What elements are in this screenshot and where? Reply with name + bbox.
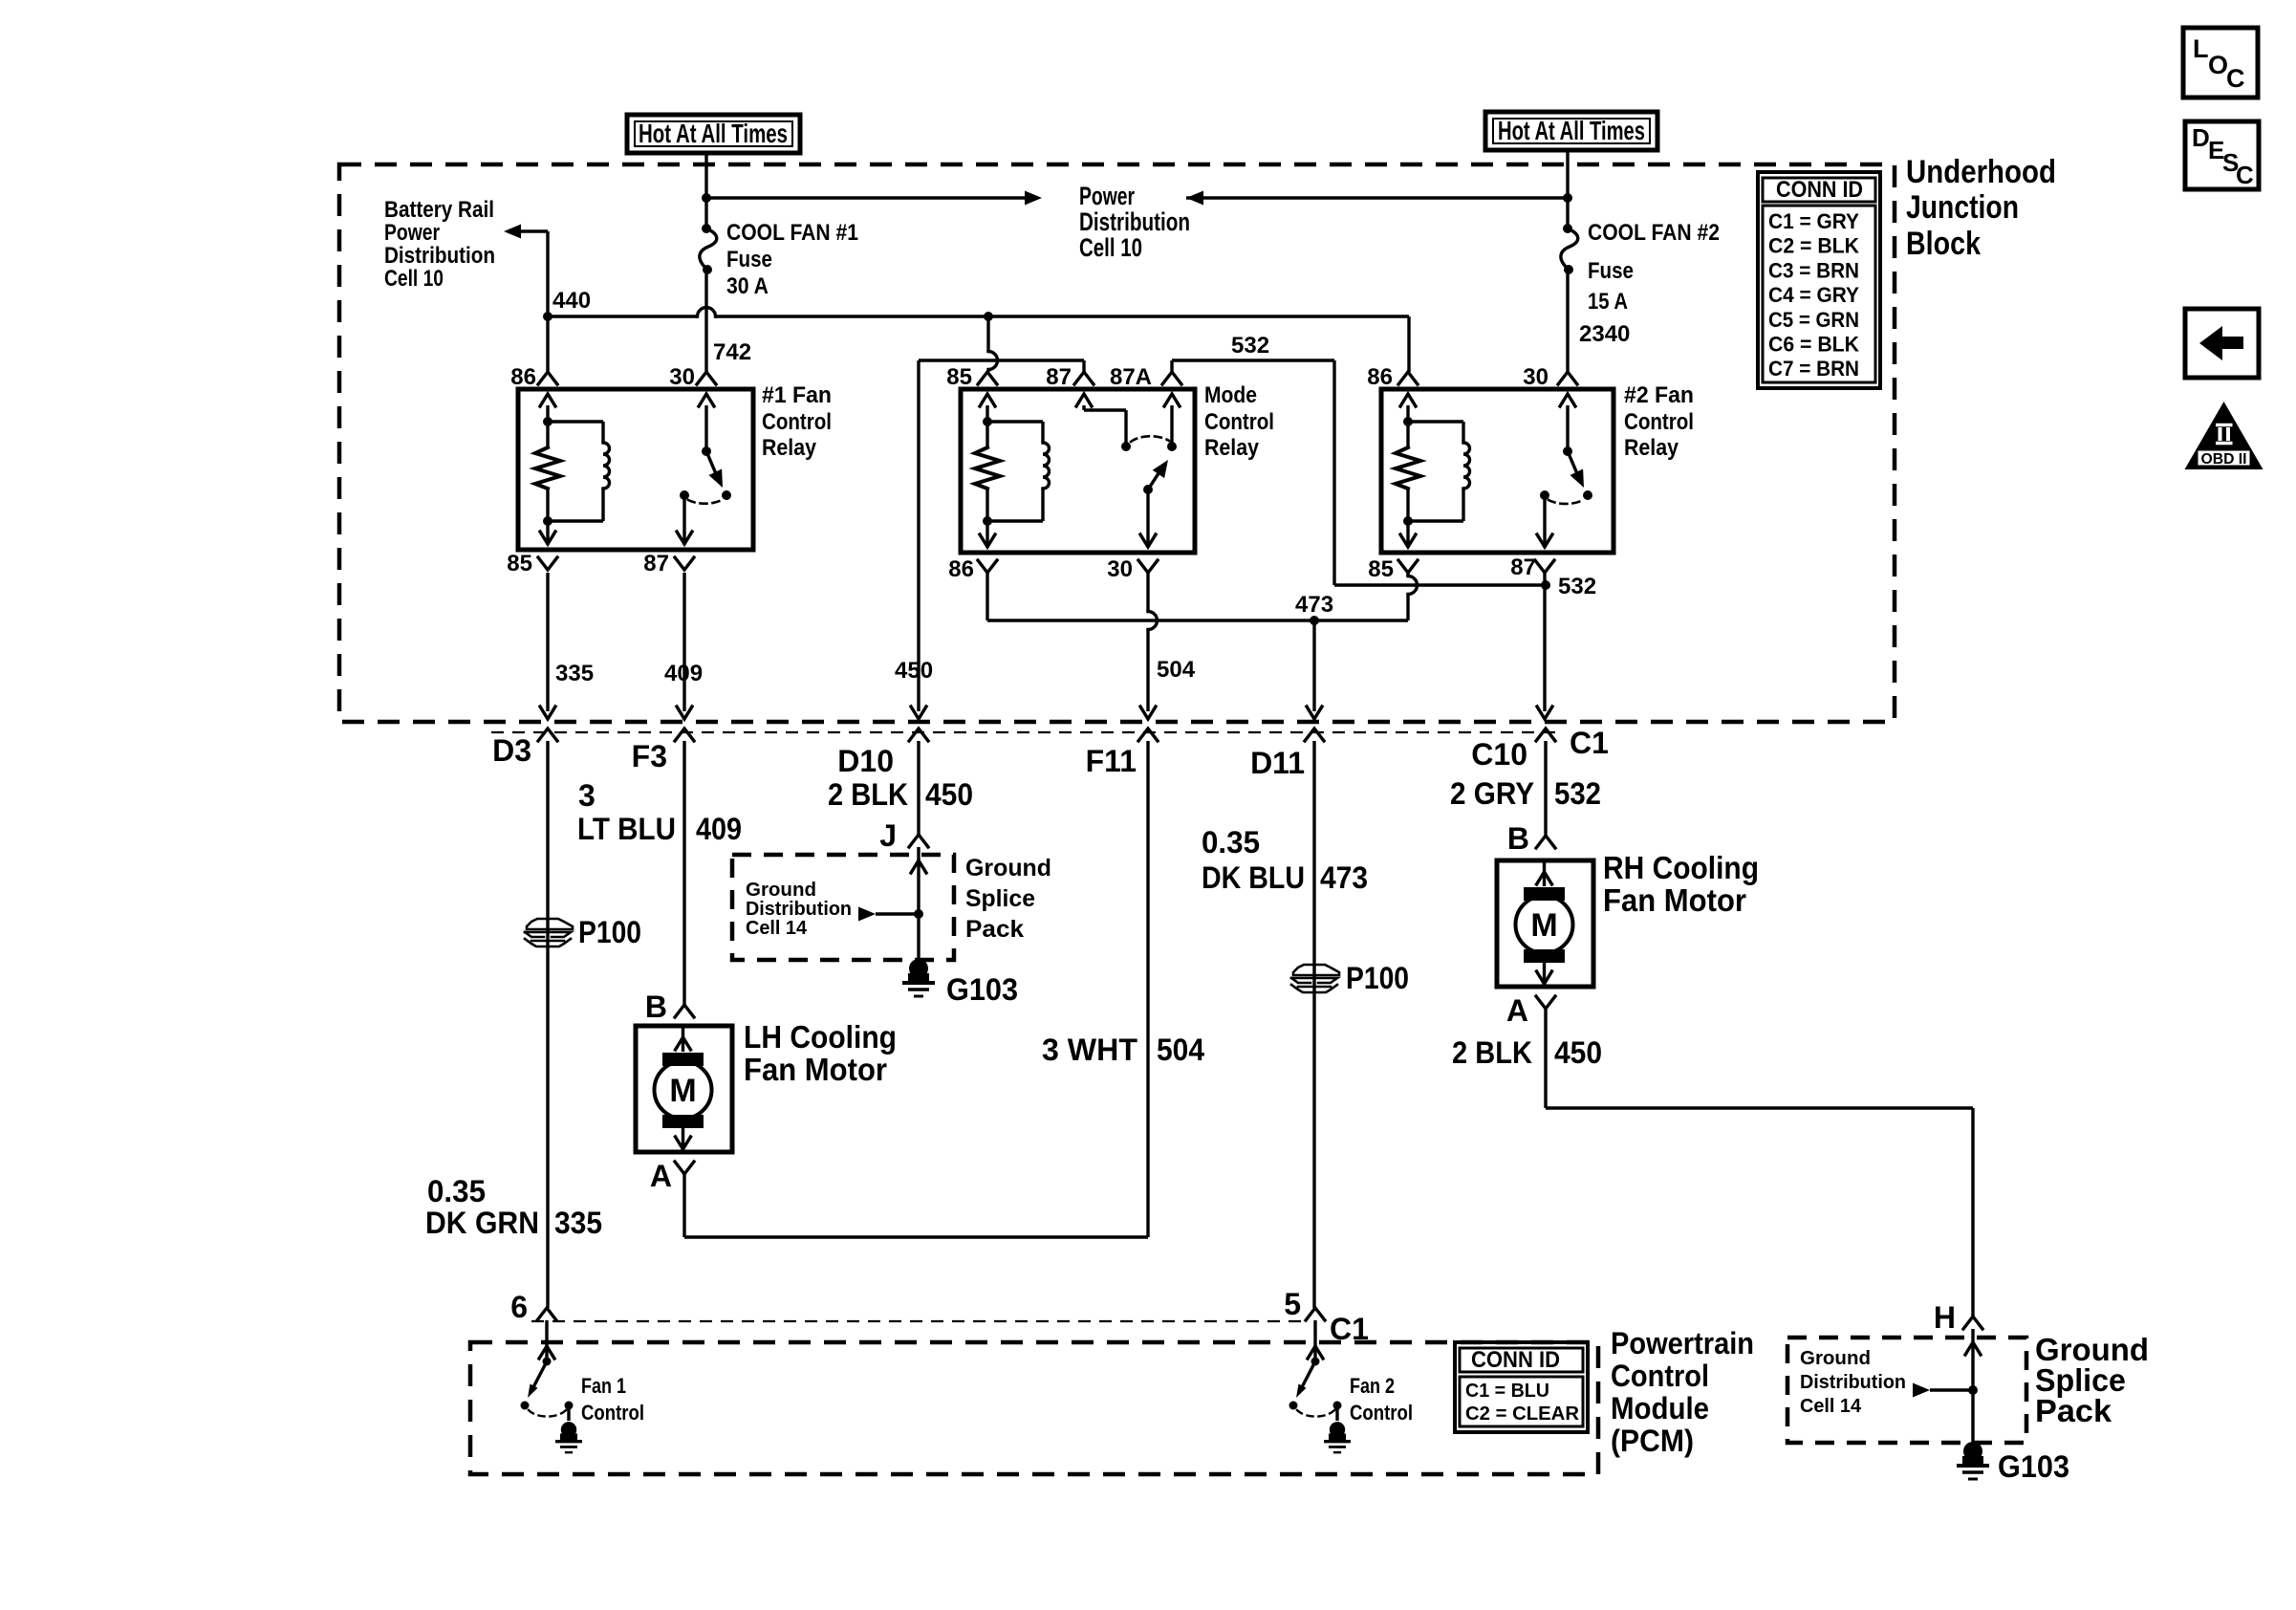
- Ground Splice Pack pin J: [879, 818, 928, 853]
- svg-text:(PCM): (PCM): [1611, 1424, 1694, 1458]
- underhood junction block dashed outline: [339, 164, 1895, 722]
- svg-text:85: 85: [1368, 556, 1394, 582]
- svg-text:C1: C1: [1330, 1312, 1369, 1346]
- svg-text:86: 86: [1367, 364, 1393, 390]
- svg-text:504: 504: [1157, 657, 1196, 683]
- svg-text:532: 532: [1231, 333, 1269, 359]
- label: Ground Splice Pack (center): [965, 855, 1051, 943]
- Ground Splice Pack dashed box (right): [1787, 1338, 2026, 1443]
- node junction on feed 1: [702, 193, 711, 203]
- RH Cooling Fan Motor: [1497, 860, 1593, 987]
- wire 2340 from fuse 2 to relay 2 pin 30: [1566, 270, 1569, 372]
- svg-text:H: H: [1934, 1300, 1956, 1335]
- svg-text:85: 85: [507, 551, 532, 577]
- svg-text:Splice: Splice: [965, 885, 1035, 912]
- svg-text:CONN ID: CONN ID: [1471, 1347, 1560, 1373]
- svg-text:CONN ID: CONN ID: [1776, 177, 1863, 203]
- svg-text:Hot At All Times: Hot At All Times: [639, 119, 788, 148]
- bus 473 from mode relay pin 86 across to relay 2 pin 85: [987, 573, 1408, 620]
- label: #1 Fan Control Relay: [762, 382, 832, 461]
- svg-text:C: C: [2226, 64, 2245, 93]
- svg-text:M: M: [1530, 907, 1557, 944]
- svg-text:Relay: Relay: [1624, 435, 1679, 461]
- svg-text:C5 = GRN: C5 = GRN: [1768, 308, 1859, 332]
- label: wire 0.35 DK GRN 335: [425, 1174, 602, 1240]
- svg-text:335: 335: [554, 1206, 602, 1240]
- svg-text:440: 440: [552, 288, 591, 314]
- svg-text:2 GRY: 2 GRY: [1450, 776, 1534, 811]
- svg-text:F3: F3: [632, 739, 667, 773]
- connector pin F3: [632, 729, 694, 773]
- svg-text:C2 = CLEAR: C2 = CLEAR: [1465, 1403, 1580, 1425]
- wire 473 drop to connector D11: [1307, 620, 1322, 719]
- label: wire 504 (upper): [1157, 657, 1196, 683]
- connector pin F11: [1086, 729, 1158, 778]
- wire 409 from relay 1 pin 87 down to connector F3: [677, 573, 692, 719]
- svg-text:Cell 14: Cell 14: [1800, 1396, 1862, 1417]
- relay 1 pin 85: [507, 551, 557, 577]
- svg-text:C6 = BLK: C6 = BLK: [1768, 333, 1859, 357]
- svg-text:Cell 10: Cell 10: [1079, 233, 1142, 262]
- svg-text:86: 86: [510, 364, 536, 390]
- svg-text:RH Cooling: RH Cooling: [1603, 850, 1759, 885]
- svg-text:Ground: Ground: [965, 855, 1051, 881]
- svg-text:D11: D11: [1250, 746, 1305, 780]
- svg-text:2340: 2340: [1579, 321, 1630, 347]
- ground G103 (right): [1957, 1442, 1989, 1479]
- label: wire 2 BLK 450 (left): [828, 777, 973, 812]
- svg-text:Hot At All Times: Hot At All Times: [1498, 116, 1645, 145]
- label: wire 335 (upper): [555, 661, 594, 686]
- label: wire 2 BLK 450 (right): [1452, 1035, 1602, 1070]
- PCM pin 5 / C1: [1284, 1287, 1369, 1346]
- svg-text:F11: F11: [1086, 744, 1137, 778]
- fuse COOL FAN #2 15A (element): [1561, 224, 1578, 274]
- svg-text:2 BLK: 2 BLK: [828, 777, 908, 812]
- svg-text:Control: Control: [1624, 409, 1694, 435]
- svg-text:30: 30: [1107, 556, 1133, 582]
- svg-text:L: L: [2193, 34, 2209, 63]
- wire 532 from mode relay pin 87A across and down to relay 2 pin 87 wire: [1172, 360, 1546, 585]
- svg-text:Module: Module: [1611, 1391, 1709, 1425]
- svg-text:Mode: Mode: [1204, 382, 1257, 408]
- svg-text:450: 450: [925, 777, 973, 812]
- wire from Power Distribution reference (left arrow) to fuse 2 feed: [1186, 191, 1568, 206]
- label: wire 532 (at junction): [1558, 574, 1596, 599]
- relay 2 pin 30: [1523, 364, 1577, 390]
- PCM Fan 1 Control switch: [521, 1320, 582, 1452]
- wire from Hot At All Times 1 down to fuse 1: [704, 153, 707, 228]
- LH fan motor pin B: [645, 990, 694, 1024]
- wire 504 from mode relay pin 30 down to connector F11 (hops over bus 473): [1140, 573, 1158, 719]
- svg-text:J: J: [879, 818, 897, 853]
- svg-text:15 A: 15 A: [1588, 289, 1628, 315]
- svg-text:C1: C1: [1570, 726, 1609, 760]
- svg-text:G103: G103: [946, 972, 1018, 1007]
- svg-text:Distribution: Distribution: [384, 243, 495, 269]
- svg-text:COOL FAN #1: COOL FAN #1: [726, 220, 858, 246]
- svg-text:D3: D3: [492, 733, 531, 768]
- ground splice pack internal wire with junction: [911, 847, 926, 962]
- label: Battery Rail Power Distribution Cell 10: [384, 197, 495, 292]
- PCM pin 6: [510, 1290, 556, 1324]
- relay 1 pin 86: [510, 364, 557, 390]
- relay 2 coil with resistor and inductor (pins 86-85): [1396, 394, 1470, 548]
- svg-text:87: 87: [643, 551, 669, 577]
- wire bus 440 across (hops over wire 742), corner down to relay 2 pin 86: [548, 308, 1409, 373]
- wire 409 from F3 down to LH fan motor pin B: [682, 741, 685, 1005]
- relay 1 switch (pins 30-87): [677, 394, 731, 545]
- label: Ground Distribution Cell 14 (center): [746, 880, 852, 939]
- label: Ground Distribution Cell 14 (right): [1800, 1348, 1906, 1417]
- svg-text:Control: Control: [581, 1401, 644, 1425]
- svg-text:532: 532: [1554, 776, 1601, 811]
- svg-text:Pack: Pack: [2035, 1393, 2112, 1428]
- junction block connector interface line (thin dashed): [491, 731, 1564, 733]
- svg-text:P100: P100: [1346, 961, 1409, 995]
- relay 1 pin 30: [669, 364, 716, 390]
- label: Fan 2 Control: [1350, 1374, 1413, 1425]
- svg-text:Distribution: Distribution: [746, 899, 852, 920]
- wire from bus 440 down to mode relay pin 85 (hops over wire 450): [988, 316, 998, 372]
- relay 2 switch (pins 30-87): [1537, 394, 1592, 548]
- svg-text:DK BLU: DK BLU: [1202, 860, 1305, 895]
- svg-text:87: 87: [1510, 555, 1536, 580]
- svg-text:Fuse: Fuse: [1588, 258, 1634, 284]
- mode relay pin 87: [1046, 364, 1094, 390]
- svg-text:Fan Motor: Fan Motor: [1603, 882, 1746, 918]
- svg-text:C1 = BLU: C1 = BLU: [1465, 1381, 1549, 1402]
- Ground Splice Pack dashed box (center): [732, 855, 954, 960]
- svg-text:C1 = GRY: C1 = GRY: [1768, 209, 1859, 233]
- svg-text:#1 Fan: #1 Fan: [762, 382, 832, 408]
- svg-text:A: A: [650, 1159, 672, 1193]
- wire from relay 2 pin 87 down to connector C1: [1537, 573, 1552, 719]
- svg-text:C10: C10: [1471, 737, 1527, 772]
- PCM connector interface line (thin dashed): [531, 1320, 1308, 1322]
- svg-text:COOL FAN #2: COOL FAN #2: [1588, 220, 1720, 246]
- svg-text:LH Cooling: LH Cooling: [744, 1019, 897, 1055]
- label: G103 (right): [1998, 1449, 2069, 1484]
- svg-text:Distribution: Distribution: [1800, 1372, 1906, 1393]
- svg-text:Relay: Relay: [1204, 435, 1260, 461]
- ground G103 (center): [902, 959, 935, 996]
- svg-text:Fan 1: Fan 1: [581, 1374, 626, 1398]
- label: wire 450 (upper): [895, 658, 933, 684]
- svg-text:B: B: [1507, 821, 1529, 856]
- Ground Distribution reference arrow (right): [1913, 1383, 1973, 1398]
- fuse COOL FAN #1 30A (element): [700, 224, 717, 274]
- svg-text:30 A: 30 A: [726, 273, 769, 299]
- label box: Hot At All Times (left): [627, 115, 800, 153]
- svg-text:Fan Motor: Fan Motor: [744, 1052, 887, 1087]
- wire 335 from relay 1 pin 85 down to connector D3: [540, 573, 555, 719]
- svg-text:3: 3: [578, 778, 596, 813]
- label: Fan 1 Control: [581, 1374, 644, 1425]
- svg-text:OBD II: OBD II: [2201, 451, 2247, 468]
- wire 335 from D3 to PCM pin 6: [546, 741, 549, 1308]
- svg-text:2 BLK: 2 BLK: [1452, 1035, 1532, 1070]
- svg-text:B: B: [645, 990, 667, 1024]
- wire 450 from mode relay pin 87 up and across to D10 drop: [919, 360, 1084, 711]
- connector pin D10: [837, 729, 928, 778]
- svg-text:Battery Rail: Battery Rail: [384, 197, 494, 223]
- label box: Hot At All Times (right): [1485, 112, 1657, 150]
- label: LH Cooling Fan Motor: [744, 1019, 897, 1087]
- svg-text:Block: Block: [1906, 226, 1981, 262]
- svg-text:30: 30: [1523, 364, 1549, 390]
- connector pin C10 / C1: [1471, 726, 1609, 772]
- label: Powertrain Control Module (PCM): [1611, 1326, 1754, 1458]
- svg-text:D10: D10: [837, 744, 894, 778]
- node junction on feed 2: [1563, 193, 1572, 203]
- svg-text:450: 450: [1554, 1035, 1602, 1070]
- label: RH Cooling Fan Motor: [1603, 850, 1759, 918]
- svg-text:C2 = BLK: C2 = BLK: [1768, 234, 1859, 258]
- svg-text:Control: Control: [762, 409, 832, 435]
- svg-text:D: D: [2192, 123, 2210, 152]
- wire 473 from D11 to PCM pin 5: [1312, 741, 1315, 1308]
- wire from relay 2 pin 85 down to bus 473 (hops over wire 532): [1408, 573, 1418, 620]
- CONN ID table (Underhood Junction Block): [1758, 172, 1880, 388]
- svg-text:A: A: [1506, 993, 1528, 1028]
- svg-text:P100: P100: [578, 915, 641, 949]
- label: wire 0.35 DK BLU 473: [1202, 825, 1368, 895]
- svg-text:6: 6: [510, 1290, 528, 1324]
- inline connector P100 (left): [525, 919, 573, 946]
- svg-text:409: 409: [664, 661, 703, 686]
- svg-text:Distribution: Distribution: [1079, 207, 1190, 236]
- mode relay pin 30: [1107, 556, 1158, 582]
- label: #2 Fan Control Relay: [1624, 382, 1694, 461]
- label: wire 3 WHT 504: [1042, 1033, 1204, 1067]
- svg-text:C: C: [2236, 161, 2254, 189]
- Ground Splice Pack pin H: [1934, 1300, 1982, 1335]
- svg-text:Pack: Pack: [965, 916, 1024, 943]
- svg-text:Powertrain: Powertrain: [1611, 1326, 1754, 1360]
- Battery Rail Power Distribution reference (left arrow) and wire to bus 440: [504, 225, 548, 373]
- svg-text:504: 504: [1157, 1033, 1204, 1067]
- wire from Hot At All Times 2 down to fuse 2: [1566, 150, 1569, 228]
- svg-text:#2 Fan: #2 Fan: [1624, 382, 1694, 408]
- svg-text:Ground: Ground: [746, 880, 816, 901]
- svg-text:DK GRN: DK GRN: [425, 1206, 539, 1240]
- node: bus 440 tap at battery feed: [543, 312, 552, 321]
- connector pin D11: [1250, 729, 1324, 780]
- svg-text:86: 86: [948, 556, 974, 582]
- relay 1 coil with resistor and inductor (pins 86-85): [535, 394, 610, 545]
- svg-text:473: 473: [1295, 592, 1333, 618]
- label: COOL FAN #1 Fuse 30 A: [726, 220, 858, 299]
- svg-text:LT BLU: LT BLU: [577, 812, 676, 846]
- svg-text:Cell 10: Cell 10: [384, 266, 444, 292]
- wire 450 from D10 to Ground Splice Pack pin J: [917, 741, 920, 835]
- wire 450 from RH motor pin A to Ground Splice Pack pin H: [1546, 1009, 1973, 1316]
- svg-text:87A: 87A: [1110, 364, 1152, 390]
- relay box: #1 Fan Control Relay: [518, 389, 753, 550]
- svg-text:M: M: [669, 1073, 696, 1109]
- svg-text:3 WHT: 3 WHT: [1042, 1033, 1137, 1067]
- mode relay switch (pins 87 / 87A / 30): [1076, 394, 1180, 547]
- relay 1 pin 87: [643, 551, 694, 577]
- LH Cooling Fan Motor: [636, 1026, 732, 1152]
- label: COOL FAN #2 Fuse 15 A: [1588, 220, 1720, 315]
- label: Power Distribution Cell 10: [1079, 182, 1190, 262]
- node: wire 473 junction to D11 drop: [1310, 616, 1319, 625]
- label: wire 409 (upper): [664, 661, 703, 686]
- label: P100 (right): [1346, 961, 1409, 995]
- svg-text:450: 450: [895, 658, 933, 684]
- wire 532 from C1 to RH fan motor pin B: [1544, 741, 1547, 836]
- wire 504 from LH motor pin A to connector F11: [684, 741, 1148, 1237]
- svg-text:Power: Power: [384, 220, 440, 246]
- svg-text:O: O: [2208, 51, 2228, 79]
- icon: DESC box: [2185, 121, 2259, 189]
- svg-text:0.35: 0.35: [427, 1174, 486, 1208]
- Ground Distribution reference arrow (center): [858, 907, 919, 922]
- svg-text:473: 473: [1320, 860, 1368, 895]
- svg-text:5: 5: [1284, 1287, 1301, 1321]
- label: wire 440: [552, 288, 591, 314]
- wire 742 from fuse 1 to relay 1 pin 30: [704, 270, 707, 372]
- label: G103 (center): [946, 972, 1018, 1007]
- svg-text:87: 87: [1046, 364, 1072, 390]
- relay 2 pin 85: [1368, 556, 1418, 582]
- svg-text:C7 = BRN: C7 = BRN: [1768, 357, 1859, 381]
- mode relay pin 87A: [1110, 364, 1181, 390]
- relay 2 pin 86: [1367, 364, 1418, 390]
- relay box: #2 Fan Control Relay: [1381, 389, 1614, 553]
- inline connector P100 (right): [1291, 965, 1339, 992]
- svg-text:532: 532: [1558, 574, 1596, 599]
- svg-text:Control: Control: [1350, 1401, 1413, 1425]
- wire 450 drop arrowhead at D10: [911, 707, 926, 719]
- CONN ID table (PCM): [1455, 1342, 1588, 1432]
- svg-text:Cell 14: Cell 14: [746, 918, 808, 939]
- PCM Fan 2 Control switch: [1289, 1320, 1351, 1452]
- wire to Power Distribution reference (right arrow): [706, 191, 1042, 206]
- svg-text:Ground: Ground: [1800, 1348, 1871, 1369]
- svg-text:409: 409: [696, 812, 742, 846]
- label: Ground Splice Pack (right): [2035, 1332, 2149, 1428]
- relay box: Mode Control Relay: [961, 389, 1195, 553]
- svg-text:30: 30: [669, 364, 695, 390]
- LH fan motor pin A: [650, 1159, 694, 1193]
- svg-text:Fan 2: Fan 2: [1350, 1374, 1395, 1398]
- svg-text:C4 = GRY: C4 = GRY: [1768, 283, 1859, 307]
- node: wire 532 junction at relay 2 pin 87 wire: [1541, 580, 1550, 590]
- icon: LOC box: [2183, 28, 2258, 98]
- label: wire 473: [1295, 592, 1333, 618]
- label: P100 (left): [578, 915, 641, 949]
- svg-text:335: 335: [555, 661, 594, 686]
- label: wire 2340: [1579, 321, 1630, 347]
- label: wire 532 (upper): [1231, 333, 1269, 359]
- svg-text:Underhood: Underhood: [1906, 154, 2056, 190]
- svg-text:0.35: 0.35: [1202, 825, 1260, 859]
- RH fan motor pin A: [1506, 993, 1555, 1028]
- label: wire 2 GRY 532: [1450, 776, 1601, 811]
- svg-text:G103: G103: [1998, 1449, 2069, 1484]
- svg-text:C3 = BRN: C3 = BRN: [1768, 258, 1859, 282]
- svg-text:Relay: Relay: [762, 435, 817, 461]
- mode relay pin 85: [946, 364, 997, 390]
- PCM dashed box: [470, 1342, 1598, 1474]
- mode relay coil with resistor and inductor (pins 85-86): [975, 394, 1050, 548]
- ground splice pack 2 internal wire with junction: [1965, 1329, 1981, 1445]
- svg-text:Control: Control: [1611, 1359, 1709, 1393]
- mode relay pin 86: [948, 556, 997, 582]
- label: Mode Control Relay: [1204, 382, 1274, 461]
- svg-text:Junction: Junction: [1906, 189, 2019, 226]
- label: Underhood Junction Block: [1906, 154, 2056, 262]
- connector pin D3: [492, 729, 557, 768]
- RH fan motor pin B: [1507, 821, 1555, 856]
- node: bus 440 tap to mode relay pin 85: [984, 312, 993, 321]
- label: wire 3 LT BLU 409: [577, 778, 742, 846]
- svg-text:85: 85: [946, 364, 972, 390]
- relay 2 pin 87: [1510, 555, 1554, 580]
- icon: back arrow box: [2185, 309, 2259, 378]
- icon: OBD II triangle: [2185, 402, 2264, 469]
- svg-text:Control: Control: [1204, 409, 1274, 435]
- svg-text:Fuse: Fuse: [726, 247, 772, 272]
- svg-text:742: 742: [713, 339, 751, 365]
- svg-text:Power: Power: [1079, 182, 1135, 210]
- label: wire 742: [713, 339, 751, 365]
